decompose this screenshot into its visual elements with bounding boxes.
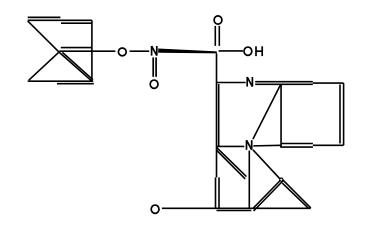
bond N2=C5 upper line: [255, 81, 313, 83]
bond ring1 middle diagonal: [59, 52, 92, 81]
atom O2 nitroso oxygen: [150, 80, 158, 88]
bond ring1 right edge: [91, 20, 93, 81]
bond ring2 bottom double lower line: [280, 146, 313, 148]
bond O1-N1: [130, 50, 150, 52]
bond C3=C4 main: [216, 83, 218, 147]
atom O3 carbonyl oxygen: [214, 16, 222, 24]
bond ring1 bottom edge: [28, 80, 94, 82]
atom O4 methoxy oxygen: [151, 205, 159, 213]
bond ring1 top double (inner line): [28, 16, 61, 18]
bond C4-C7 upper single part: [216, 146, 218, 177]
bond C4-N3: [217, 145, 245, 147]
bond ring2 right edge (inner line): [339, 85, 341, 144]
bond N2=C5 lower line: [255, 83, 313, 85]
bond C7-C8 double (inner line): [217, 210, 252, 212]
bond ring2 right edge: [343, 83, 345, 145]
bond ring1 middle diagonal (inner line): [62, 52, 93, 79]
bond C2-OH: [219, 50, 243, 52]
bond N1=O2 line b: [155, 57, 157, 76]
bond ring1 bottom double (half inner line): [57, 83, 94, 85]
bond C2-C3: [216, 53, 218, 82]
bond ring1 mid horizontal: [61, 47, 92, 49]
bond C2=O3 carbonyl line b: [218, 26, 220, 46]
atom N2 ring nitrogen top: [247, 77, 252, 87]
bond C4 stub double line a: [217, 148, 247, 177]
bond N1-C2 wedge: [158, 49, 217, 54]
bond C4-C7 double left line: [215, 177, 217, 209]
bond ring2 bottom double upper line: [281, 143, 313, 145]
atom O1 ether oxygen: [118, 48, 126, 56]
bond C9-C10 triangle right outer: [282, 179, 311, 208]
bond N3-C9 diagonal: [253, 150, 281, 181]
bond C2=O3 carbonyl line a: [214, 26, 216, 46]
bond ring2 top edge right half: [313, 82, 344, 84]
atom N3 ring nitrogen bottom: [247, 140, 252, 150]
bond C4-C7 double right line: [218, 177, 220, 209]
bond C3-N2: [217, 82, 246, 84]
bond C1-O1 ether: [59, 50, 115, 52]
bond C3=C4 inner line: [218, 84, 220, 146]
bond ring1 upper-left diagonal: [28, 21, 59, 52]
bond N3-C5 crossing diagonal: [253, 84, 281, 139]
bond ring1 lower-left diagonal: [29, 52, 59, 80]
atom O-H hydroxyl: [244, 46, 262, 56]
bond ring2 left edge: [280, 84, 282, 147]
bond N1=O2 line a: [152, 57, 154, 76]
bond ring2 bottom edge right half: [313, 144, 344, 146]
bond C4 stub double line b: [217, 150, 246, 179]
bond O4-C7 and triangle base: [162, 207, 311, 209]
atom N1 nitroso nitrogen: [152, 46, 157, 56]
node C9 small ring artifact: [280, 178, 283, 181]
bond C8-C9 triangle left outer: [253, 180, 282, 209]
bond ring1 top double (half inner line): [61, 22, 92, 24]
bond N3-C6: [253, 144, 281, 147]
bond ring1 top edge: [28, 19, 92, 21]
bond N3-C8 vertical: [248, 151, 250, 209]
bond C8-C9 triangle left inner: [254, 181, 283, 211]
bond C9-C10 triangle right inner: [282, 183, 308, 208]
